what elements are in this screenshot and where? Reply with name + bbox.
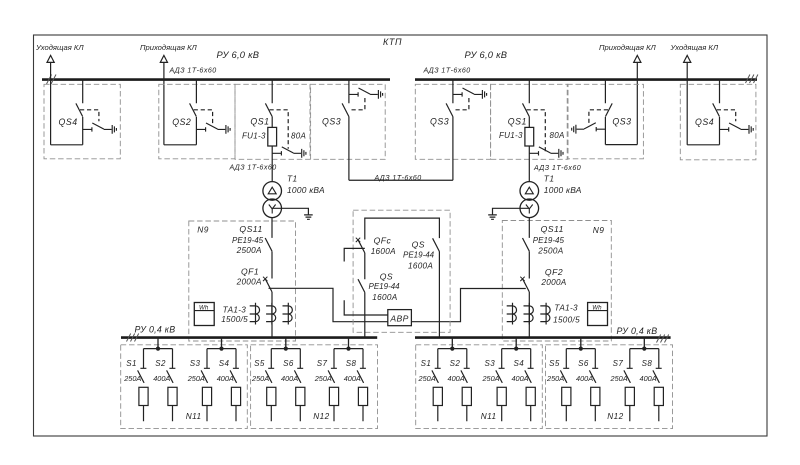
svg-text:QS3: QS3 xyxy=(430,116,449,126)
svg-text:QF2: QF2 xyxy=(545,267,563,277)
svg-text:N9: N9 xyxy=(593,225,605,235)
svg-text:Т1: Т1 xyxy=(287,174,298,184)
earthing switch of QS3 link right xyxy=(453,88,487,99)
svg-text:1000 кВА: 1000 кВА xyxy=(287,185,325,195)
svg-text:S1: S1 xyxy=(126,359,137,368)
wire QF1 to АВР xyxy=(269,288,388,321)
svg-text:QS3: QS3 xyxy=(612,116,631,126)
feeder switch-fuse S8 400А xyxy=(357,349,366,422)
wire QF1 to bus left xyxy=(271,292,273,338)
panel outline N11 left xyxy=(121,345,248,429)
wire transformer to QS11 right xyxy=(528,218,530,279)
svg-text:80А: 80А xyxy=(550,131,565,140)
disconnector QS3 left: wire xyxy=(348,79,350,180)
panel outline N9 right xyxy=(502,221,611,342)
switch QS bus-tie right: wire xyxy=(438,252,440,338)
svg-text:АДЗ 1Т-6х60: АДЗ 1Т-6х60 xyxy=(374,174,422,182)
wire incoming cable right xyxy=(636,62,638,144)
cabinet outline QS3 left xyxy=(311,84,386,159)
junction dot xyxy=(450,347,454,351)
wire 0.4kV feeder tap at x=348.5 xyxy=(334,337,363,348)
wire neutral ground right xyxy=(493,208,530,214)
disconnector QS1 right blade xyxy=(523,103,530,116)
svg-text:РУ 0,4 кВ: РУ 0,4 кВ xyxy=(617,326,658,336)
feeder switch-fuse S3 250А xyxy=(496,349,505,422)
wire 0.4kV feeder tap at x=221.5 xyxy=(207,337,236,348)
svg-text:250А: 250А xyxy=(418,374,436,383)
svg-text:Приходящая КЛ: Приходящая КЛ xyxy=(140,43,198,52)
svg-text:QF1: QF1 xyxy=(241,266,259,276)
svg-text:S4: S4 xyxy=(219,359,230,368)
svg-text:250А: 250А xyxy=(314,374,332,383)
svg-text:FU1-3: FU1-3 xyxy=(242,131,266,140)
switch QS11 left blade xyxy=(265,238,272,251)
bus РУ 6,0 кВ left section xyxy=(42,78,390,81)
svg-text:QS4: QS4 xyxy=(59,117,78,127)
svg-text:АДЗ 1Т-6х60: АДЗ 1Т-6х60 xyxy=(423,67,471,75)
bus РУ 0,4 кВ right section xyxy=(415,336,671,339)
cabinet outline QS2 xyxy=(159,84,235,159)
svg-text:1500/5: 1500/5 xyxy=(221,315,248,324)
svg-text:РЕ19-45: РЕ19-45 xyxy=(232,236,264,245)
feeder switch-fuse S6 400А xyxy=(294,349,303,422)
disconnector QS4 left: wire loop xyxy=(51,79,83,144)
feeder switch-fuse S1 250А xyxy=(432,349,441,422)
junction dot xyxy=(156,347,160,351)
svg-text:400А: 400А xyxy=(640,374,657,383)
svg-text:S6: S6 xyxy=(578,359,589,368)
earthing switch of QS4 left xyxy=(83,123,117,134)
wire outgoing cable right xyxy=(686,62,688,144)
svg-text:400А: 400А xyxy=(576,374,593,383)
switch QS11 right blade xyxy=(523,238,530,251)
disconnector QS4 right: wire loop xyxy=(687,79,719,144)
junction dot xyxy=(514,347,518,351)
wire 0.4kV feeder tap at x=285.8 xyxy=(271,337,300,348)
svg-text:QS2: QS2 xyxy=(172,117,191,127)
svg-text:QS11: QS11 xyxy=(239,224,262,234)
feeder switch-fuse S2 400А xyxy=(167,349,176,422)
switch QS bus-tie right blade xyxy=(433,238,440,251)
svg-text:S5: S5 xyxy=(549,359,560,368)
svg-text:S1: S1 xyxy=(421,359,432,368)
earthing switch of QS3 left xyxy=(349,88,383,99)
svg-text:1600А: 1600А xyxy=(408,262,433,271)
svg-text:N12: N12 xyxy=(313,412,329,421)
svg-text:Т1: Т1 xyxy=(544,174,555,184)
wire 0.4kV feeder tap at x=516.2 xyxy=(502,337,531,348)
panel outline bus-tie section xyxy=(353,210,450,332)
linkage dashed QS4 left xyxy=(80,110,99,122)
svg-text:АДЗ 1Т-6х60: АДЗ 1Т-6х60 xyxy=(169,67,217,75)
feeder switch-fuse S4 400А xyxy=(525,349,534,422)
outgoing cable arrow left xyxy=(47,55,54,62)
svg-text:РЕ19-45: РЕ19-45 xyxy=(533,236,565,245)
svg-text:N11: N11 xyxy=(186,412,202,421)
svg-text:QS4: QS4 xyxy=(695,117,714,127)
switch QS bus-tie left blade xyxy=(358,279,365,292)
svg-text:2000А: 2000А xyxy=(540,278,566,287)
disconnector QS1 right: wire xyxy=(528,79,530,181)
svg-text:АДЗ 1Т-6х60: АДЗ 1Т-6х60 xyxy=(533,164,581,172)
disconnector QS1 left: wire xyxy=(271,79,273,181)
breaker QFс blade xyxy=(358,240,365,253)
linkage dashed QS3 right xyxy=(589,110,608,123)
svg-text:РЕ19-44: РЕ19-44 xyxy=(403,251,435,260)
earthing switch of QS1 right xyxy=(529,147,563,158)
svg-text:QS11: QS11 xyxy=(541,224,564,234)
transformer T1 left xyxy=(263,182,282,201)
wire 0.4kV feeder tap at x=580.8 xyxy=(566,337,595,348)
wire 6kV bus link cable xyxy=(349,179,453,181)
svg-text:250А: 250А xyxy=(610,374,628,383)
linkage dashed QS3 link right xyxy=(456,95,469,109)
linkage dashed QS4 right xyxy=(717,110,736,122)
svg-text:250А: 250А xyxy=(123,374,141,383)
disconnector QS4 right blade xyxy=(713,103,720,116)
crossing mark /// at right 0.4kV bus end xyxy=(657,335,669,343)
svg-text:S4: S4 xyxy=(514,359,525,368)
svg-text:2500А: 2500А xyxy=(236,246,262,255)
disconnector QS3 right blade xyxy=(605,103,612,116)
panel outline N12 right xyxy=(546,345,673,429)
withdrawable contact bracket lower / АВР control wire xyxy=(344,300,388,315)
panel outline N12 left xyxy=(251,345,378,429)
svg-text:QFс: QFс xyxy=(374,236,392,246)
svg-text:АВР: АВР xyxy=(389,313,408,323)
svg-text:250А: 250А xyxy=(187,374,205,383)
current transformer ТА1-3 right xyxy=(507,303,517,325)
svg-text:1600А: 1600А xyxy=(371,247,396,256)
fuse FU1-3 right xyxy=(525,127,534,146)
svg-text:1000 кВА: 1000 кВА xyxy=(544,185,582,195)
svg-text:РУ 0,4 кВ: РУ 0,4 кВ xyxy=(135,325,176,335)
svg-text:400А: 400А xyxy=(344,374,361,383)
svg-text:1600А: 1600А xyxy=(372,293,397,302)
panel outline N11 right xyxy=(416,345,543,429)
outgoing cable arrow right xyxy=(684,55,691,62)
svg-text:400А: 400А xyxy=(217,374,234,383)
svg-text:250А: 250А xyxy=(251,374,269,383)
wire 0.4kV feeder tap at x=158 xyxy=(144,337,173,348)
disconnector QS4 left blade xyxy=(76,103,83,116)
linkage dashed QS1 left xyxy=(270,110,289,149)
wire 0.4kV feeder tap at x=644.3 xyxy=(630,337,659,348)
meter Wh left xyxy=(194,303,214,326)
svg-text:S7: S7 xyxy=(613,359,624,368)
switch QS bus-tie left: wire xyxy=(364,253,366,338)
crossing mark /// at left 0.4kV bus end xyxy=(127,334,139,342)
svg-text:250А: 250А xyxy=(546,374,564,383)
crossing mark /// at right bus end xyxy=(746,75,758,84)
automatic transfer switch АВР box xyxy=(388,310,412,326)
svg-text:FU1-3: FU1-3 xyxy=(499,131,523,140)
svg-text:РЕ19-44: РЕ19-44 xyxy=(369,282,401,291)
feeder switch-fuse S5 250А xyxy=(265,349,274,422)
svg-text:400А: 400А xyxy=(153,374,170,383)
disconnector QS2 blade xyxy=(190,103,197,116)
meter Wh right xyxy=(588,303,608,326)
svg-text:АДЗ 1Т-6х60: АДЗ 1Т-6х60 xyxy=(229,164,277,172)
incoming cable arrow right xyxy=(634,55,641,62)
earthing switch of QS4 right xyxy=(720,123,754,134)
svg-text:1500/5: 1500/5 xyxy=(553,315,580,324)
svg-text:2000А: 2000А xyxy=(236,278,262,287)
disconnector QS3 link right: wire xyxy=(452,79,454,180)
withdrawable contact bracket upper xyxy=(344,248,365,261)
cabinet outline QS1 right xyxy=(491,84,568,159)
svg-text:250А: 250А xyxy=(481,374,499,383)
svg-text:S3: S3 xyxy=(190,359,201,368)
junction dot xyxy=(284,347,288,351)
earthing switch of QS2 xyxy=(196,123,230,134)
wire outgoing cable left xyxy=(50,62,52,144)
bus РУ 6,0 кВ right section xyxy=(415,78,757,81)
svg-text:400А: 400А xyxy=(448,374,465,383)
feeder switch-fuse S4 400А xyxy=(230,349,239,422)
disconnector QS3 link right blade xyxy=(446,103,453,116)
svg-text:КТП: КТП xyxy=(383,37,402,47)
svg-text:N9: N9 xyxy=(197,224,209,234)
linkage dashed QS1 right xyxy=(527,110,546,153)
current transformer ТА1-3 left xyxy=(250,303,260,325)
earthing switch of QS3 right xyxy=(572,123,606,134)
linkage dashed QS2 xyxy=(194,110,213,124)
svg-text:Wh: Wh xyxy=(199,304,209,311)
wire bus-tie top bar xyxy=(365,218,440,239)
feeder switch-fuse S6 400А xyxy=(589,349,598,422)
svg-text:ТА1-3: ТА1-3 xyxy=(554,304,578,313)
junction dot xyxy=(579,347,583,351)
crossing mark // on left outgoing cable xyxy=(47,75,57,85)
junction dot xyxy=(346,347,350,351)
svg-text:80А: 80А xyxy=(291,131,306,140)
wire neutral ground left xyxy=(272,208,308,214)
svg-text:Уходящая КЛ: Уходящая КЛ xyxy=(670,43,719,52)
disconnector QS2: wire loop xyxy=(164,79,197,144)
feeder switch-fuse S2 400А xyxy=(461,349,470,422)
breaker QF2 blade xyxy=(523,279,530,292)
wire incoming cable left xyxy=(163,62,165,144)
wire 0.4kV feeder tap at x=452.3 xyxy=(438,337,467,348)
breaker QF1 blade xyxy=(265,279,272,292)
svg-text:S8: S8 xyxy=(346,359,357,368)
feeder switch-fuse S1 250А xyxy=(138,349,147,422)
disconnector QS3 right: wire loop xyxy=(605,79,637,144)
earthing switch of QS1 left xyxy=(272,147,306,158)
svg-text:Приходящая КЛ: Приходящая КЛ xyxy=(599,43,657,52)
feeder switch-fuse S8 400А xyxy=(653,349,662,422)
cabinet outline QS3 link right xyxy=(415,84,490,159)
ground neutral left xyxy=(304,215,313,219)
svg-text:QS: QS xyxy=(412,240,425,250)
cabinet outline QS1 left xyxy=(235,84,310,159)
svg-text:400А: 400А xyxy=(511,374,528,383)
feeder switch-fuse S7 250А xyxy=(328,349,337,422)
svg-text:S6: S6 xyxy=(283,359,294,368)
fuse FU1-3 left xyxy=(268,127,277,146)
svg-text:РУ 6,0 кВ: РУ 6,0 кВ xyxy=(465,50,508,60)
svg-text:QS3: QS3 xyxy=(322,116,341,126)
svg-text:РУ 6,0 кВ: РУ 6,0 кВ xyxy=(217,50,260,60)
svg-text:QS1: QS1 xyxy=(250,116,269,126)
svg-text:N11: N11 xyxy=(481,412,497,421)
wire transformer to QS11 left xyxy=(271,218,273,279)
disconnector QS1 left blade xyxy=(265,103,272,116)
svg-text:S5: S5 xyxy=(254,359,265,368)
svg-text:2500А: 2500А xyxy=(537,246,563,255)
svg-text:Wh: Wh xyxy=(592,304,602,311)
cabinet outline QS3 right xyxy=(567,84,643,159)
ground neutral right xyxy=(488,215,497,219)
wire QF2 to bus right xyxy=(528,292,530,338)
wire QF2 to АВР xyxy=(411,289,525,322)
linkage dashed QS3 left xyxy=(352,95,365,109)
svg-text:S3: S3 xyxy=(485,359,496,368)
svg-text:400А: 400А xyxy=(281,374,298,383)
transformer T1 right xyxy=(520,182,539,201)
panel outline N9 left xyxy=(189,221,296,341)
bus РУ 0,4 кВ left section xyxy=(121,336,377,339)
feeder switch-fuse S5 250А xyxy=(560,349,569,422)
svg-text:S2: S2 xyxy=(450,359,461,368)
svg-text:QS: QS xyxy=(380,272,393,282)
junction dot xyxy=(219,347,223,351)
svg-text:S8: S8 xyxy=(642,359,653,368)
cabinet outline QS4 left xyxy=(44,84,120,159)
junction dot xyxy=(642,347,646,351)
svg-text:ТА1-3: ТА1-3 xyxy=(223,305,247,314)
svg-text:S7: S7 xyxy=(317,359,328,368)
svg-text:N12: N12 xyxy=(607,412,623,421)
feeder switch-fuse S3 250А xyxy=(201,349,210,422)
svg-text:Уходящая КЛ: Уходящая КЛ xyxy=(35,43,84,52)
cabinet outline QS4 right xyxy=(680,84,756,160)
feeder switch-fuse S7 250А xyxy=(624,349,633,422)
incoming cable arrow left xyxy=(160,55,167,62)
svg-text:QS1: QS1 xyxy=(508,116,527,126)
disconnector QS3 left blade xyxy=(342,103,349,116)
svg-text:S2: S2 xyxy=(155,359,166,368)
